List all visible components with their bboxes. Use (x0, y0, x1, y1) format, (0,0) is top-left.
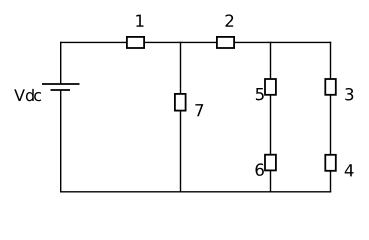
wire bottom bus (60, 191, 331, 193)
wire left vertical above battery (60, 42, 62, 84)
label 7 (R7 value) (195, 104, 203, 116)
resistor R4 body (325, 155, 336, 171)
resistor R2 body (217, 37, 234, 48)
wire branch 5-6 upper (270, 42, 272, 79)
battery Vdc negative plate (short) (51, 89, 71, 91)
label 4 (R4 value) (345, 164, 354, 176)
resistor R6 body (265, 155, 276, 171)
resistor R5 body (265, 79, 276, 95)
label 3 (R3 value) (345, 88, 353, 101)
wire branch 5-6 lower (270, 171, 272, 193)
label Vdc letter V (14, 89, 25, 101)
wire middle branch upper (180, 42, 182, 94)
resistor R1 body (127, 37, 144, 48)
battery Vdc positive plate (long) (42, 83, 80, 85)
label Vdc letter c (34, 92, 41, 101)
wire left vertical below battery (60, 90, 62, 193)
resistor R3 body (325, 79, 336, 95)
resistor R7 body (175, 94, 186, 111)
label Vdc letter d (26, 89, 34, 101)
wire branch 3-4 lower (330, 171, 332, 193)
label 5 (R5 value) (256, 88, 264, 100)
wire branch 5-6 between R5 and R6 (270, 95, 272, 154)
label 1 (R1 value) (136, 15, 143, 27)
wire middle branch lower (180, 111, 182, 193)
label 2 (R2 value) (225, 14, 233, 26)
label 6 (R6 value) (255, 163, 263, 176)
wire top bus: source to R1 (61, 41, 127, 43)
wire branch 3-4 between R3 and R4 (330, 95, 332, 154)
wire branch 3-4 upper (330, 42, 332, 79)
wire top bus: R2 to right corner (235, 41, 332, 43)
wire top bus: R1 to R2 (through node at middle branch) (145, 41, 217, 43)
